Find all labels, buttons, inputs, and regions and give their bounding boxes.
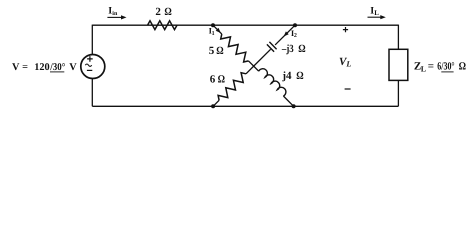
label - (VL polarity) — [345, 88, 351, 90]
node D (bottom-right junction) — [292, 104, 296, 108]
wire left lower (source bottom to bottom wire) — [91, 78, 93, 106]
label + (VL polarity) — [343, 27, 348, 32]
current arrow IL — [368, 15, 386, 19]
svg-text:L: L — [374, 9, 379, 17]
node C (bottom-left junction) — [211, 104, 215, 108]
load ZL box — [389, 49, 408, 80]
label V = 120∠30° V — [12, 62, 77, 73]
svg-text:Ω: Ω — [459, 61, 467, 73]
svg-text:Ω: Ω — [164, 6, 172, 18]
svg-text:/30°: /30° — [49, 62, 65, 73]
svg-text:V: V — [12, 62, 20, 73]
current label I2 — [291, 28, 297, 39]
resistor 2Ω — [148, 21, 178, 30]
resistor 5Ω (diagonal) — [221, 34, 249, 62]
svg-text:6: 6 — [210, 73, 216, 85]
wire left upper (source top to top wire) — [91, 25, 93, 55]
wire A to 5Ω with I1 arrow — [213, 25, 222, 34]
label 2 Ω — [155, 6, 172, 18]
wire bottom — [92, 105, 398, 107]
svg-text:j4: j4 — [281, 70, 292, 82]
svg-text:=: = — [22, 62, 28, 73]
current label IL — [370, 5, 379, 17]
wire 6Ω to C — [213, 100, 219, 106]
svg-text:Ω: Ω — [218, 73, 226, 85]
label 5 Ω — [209, 45, 224, 57]
capacitor -j3Ω plates — [267, 42, 277, 52]
svg-text:2: 2 — [294, 33, 297, 39]
node A (top-left junction, I1) — [211, 23, 215, 27]
svg-text:=: = — [428, 61, 434, 73]
svg-text:6/30°: 6/30° — [437, 61, 454, 73]
svg-text:V: V — [69, 62, 77, 73]
wire right lower (ZL box to bottom wire) — [397, 80, 399, 106]
inductor j4Ω (diagonal coil) — [259, 69, 286, 96]
wire B to capacitor with I2 arrow — [275, 25, 295, 45]
current arrow Iin — [107, 15, 126, 19]
current label Iin — [108, 6, 118, 18]
current label I1 — [209, 26, 215, 37]
svg-text:5: 5 — [209, 45, 215, 57]
svg-text:120: 120 — [34, 62, 49, 73]
svg-text:Ω: Ω — [298, 43, 306, 55]
svg-text:Ω: Ω — [216, 45, 224, 57]
svg-text:1: 1 — [212, 31, 215, 37]
svg-text:L: L — [345, 60, 351, 69]
label 6 Ω — [210, 73, 225, 85]
wire capacitor to 6Ω — [246, 49, 271, 74]
wire 5Ω to inductor — [249, 61, 259, 71]
svg-text:in: in — [112, 10, 118, 17]
voltage source V (AC source circle with + ~ -) — [81, 55, 105, 79]
svg-text:–j3: –j3 — [281, 43, 294, 55]
node B (top-right junction, I2) — [293, 23, 297, 27]
svg-text:2: 2 — [155, 6, 161, 18]
wire top — [92, 24, 398, 26]
label -j3 Ω — [281, 43, 306, 55]
label ZL = 6∠30° Ω — [414, 61, 466, 74]
wire inductor to D — [283, 96, 293, 106]
svg-text:L: L — [421, 64, 426, 73]
svg-text:Ω: Ω — [296, 70, 304, 82]
wire right upper (top wire to ZL box) — [397, 25, 399, 50]
label j4 Ω — [281, 70, 303, 82]
label VL — [339, 56, 351, 69]
resistor 6Ω (diagonal) — [218, 73, 246, 101]
